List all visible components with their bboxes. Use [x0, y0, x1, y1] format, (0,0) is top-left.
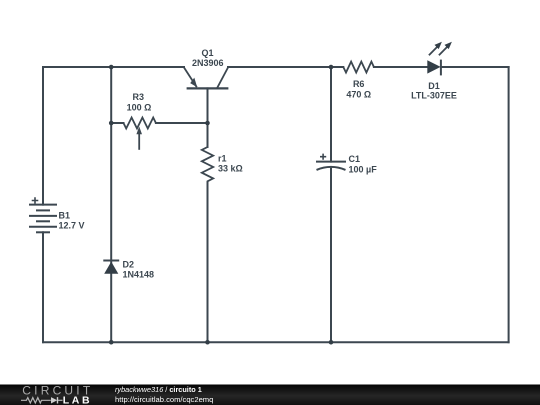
svg-text:D1: D1 — [428, 81, 440, 91]
svg-text:LAB: LAB — [63, 394, 92, 405]
wire C1 top lead — [330, 67, 332, 162]
svg-text:LTL-307EE: LTL-307EE — [411, 91, 457, 101]
wire r1 bottom lead — [207, 182, 209, 342]
svg-text:100 Ω: 100 Ω — [127, 102, 152, 112]
svg-text:Q1: Q1 — [201, 48, 213, 58]
wire node2 column — [110, 67, 112, 342]
svg-text:C1: C1 — [349, 154, 361, 164]
wire R3 left lead — [111, 122, 123, 124]
svg-text:12.7 V: 12.7 V — [59, 220, 85, 230]
svg-text:33 kΩ: 33 kΩ — [218, 164, 243, 174]
wire top-middle segment — [228, 66, 343, 68]
junction node top x331 — [329, 65, 334, 70]
junction node bottom x208 — [205, 340, 210, 345]
junction node bottom x331 — [329, 340, 334, 345]
battery B1 plus sign — [32, 197, 39, 204]
resistor R6 — [343, 62, 374, 73]
wire LED to right rail — [441, 66, 509, 68]
wire top-left segment — [43, 66, 184, 68]
wire R6 to LED — [374, 66, 427, 68]
junction node R3 left — [109, 121, 114, 126]
svg-text:R3: R3 — [133, 92, 145, 102]
CircuitLab logo resistor squiggle — [21, 398, 51, 403]
svg-text:rybackwwe316 / circuito 1: rybackwwe316 / circuito 1 — [115, 385, 202, 394]
wire R3 right lead — [156, 122, 208, 124]
wire left rail upper — [42, 67, 44, 205]
transistor Q1 — [184, 68, 228, 89]
junction node top x111 — [109, 65, 114, 70]
CircuitLab logo diode — [51, 397, 63, 403]
junction node bottom x111 — [109, 340, 114, 345]
LED D1 — [427, 60, 441, 76]
svg-text:100 µF: 100 µF — [349, 165, 378, 175]
junction node R3 right — [205, 121, 210, 126]
diode D2 — [103, 261, 119, 274]
resistor r1 — [202, 147, 213, 182]
wire Q1 base — [207, 88, 209, 147]
LED D1 light arrow 1 — [429, 42, 442, 56]
LED D1 light arrow 2 — [439, 42, 452, 56]
svg-text:470 Ω: 470 Ω — [346, 90, 371, 100]
capacitor C1 plus sign — [320, 154, 326, 160]
resistor R3 wiper arrow — [136, 127, 142, 150]
wire C1 bottom lead — [330, 169, 332, 343]
svg-text:R6: R6 — [353, 79, 365, 89]
svg-text:2N3906: 2N3906 — [192, 58, 224, 68]
svg-text:r1: r1 — [218, 154, 227, 164]
wire bottom rail — [43, 341, 509, 343]
svg-text:1N4148: 1N4148 — [123, 270, 155, 280]
svg-text:D2: D2 — [123, 260, 135, 270]
svg-text:B1: B1 — [59, 210, 71, 220]
wire left rail lower — [42, 232, 44, 342]
resistor R3 (potentiometer) — [124, 118, 156, 129]
capacitor C1 — [316, 162, 346, 170]
svg-text:http://circuitlab.com/cqc2emq: http://circuitlab.com/cqc2emq — [115, 395, 213, 404]
battery B1 — [29, 205, 57, 233]
wire right rail — [508, 67, 510, 342]
